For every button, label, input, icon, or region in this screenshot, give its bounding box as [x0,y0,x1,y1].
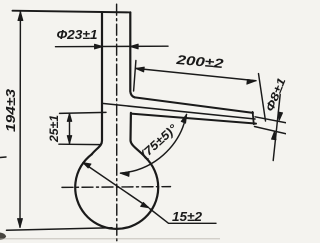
arrow diagonal lower-right [141,202,149,207]
svg-text:15±2: 15±2 [172,209,203,224]
side tube top wall [135,97,253,113]
arrow diagonal upper-left [83,163,91,168]
arrow 25 top [67,113,72,121]
arrow angle arc at tube [181,114,187,123]
200/phi8 right extension line [259,74,266,121]
neck left wall [92,12,102,154]
bottom extension line [7,228,113,231]
arrow 200 right [247,79,256,84]
svg-text:194±3: 194±3 [3,88,18,132]
phi8 dimension line [273,95,280,161]
svg-text:Ф23±1: Ф23±1 [57,27,98,42]
arrow phi23 left [95,44,104,49]
tube top wall extension to right edge [255,117,286,123]
phi23 dimension line [56,45,169,48]
arrow phi23 right [130,44,139,49]
arrow 194 bottom [18,219,23,228]
25 top extension line [60,112,107,113]
sphere diameter diagonal line [83,163,149,208]
tube bottom wall extension to right edge [255,127,287,134]
leader line for 15 dimension [150,209,217,224]
horizontal dash-dot centerline [62,186,171,189]
25 bottom extension line [59,143,100,145]
left edge tick [0,156,6,159]
arrow 25 bottom [67,136,72,144]
scan smudge bottom-left corner [0,233,6,240]
vertical dash-dot centerline [116,4,118,241]
arrow 194 top [18,12,23,21]
neck right wall upper + fillet into tube top wall [130,12,135,97]
flask top edge + top extension line for 194 dim [13,11,131,13]
200 dimension line [136,68,256,80]
arrow angle arc at centerline [120,172,129,177]
svg-text:25±1: 25±1 [49,115,61,143]
tube end cap [253,112,254,124]
arrow phi8 upper [278,112,283,120]
sphere body arc [75,154,158,229]
25 dimension line [69,114,71,144]
200 left extension line [134,61,136,92]
faint scan line along bottom [0,238,220,239]
arrow 200 left [136,67,145,72]
side tube bottom wall [131,114,256,124]
arrow phi8 lower [272,131,277,140]
194 dimension line [19,12,21,228]
side tube lower inner wall crossing neck [102,103,255,119]
angle dimension arc [121,115,187,174]
neck right wall lower + shoulder into sphere [131,113,146,158]
